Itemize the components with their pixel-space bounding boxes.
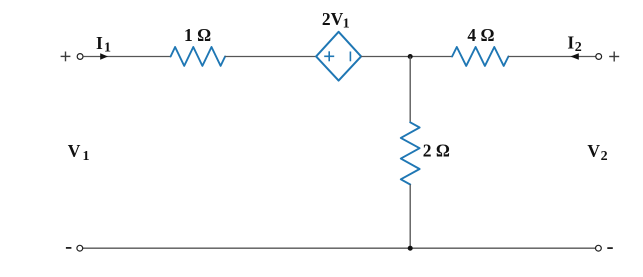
svg-text:2: 2	[601, 149, 608, 164]
current arrow I2	[570, 53, 578, 59]
resistor R3 2 ohm (vertical)	[401, 122, 420, 184]
svg-text:2V: 2V	[322, 9, 344, 29]
terminal + label (port 2 top)	[609, 52, 619, 62]
label 1 ohm	[184, 25, 211, 45]
svg-text:1 Ω: 1 Ω	[184, 25, 211, 45]
wire	[361, 56, 452, 58]
wire	[508, 56, 595, 58]
wire	[83, 56, 170, 58]
svg-text:2 Ω: 2 Ω	[423, 141, 450, 161]
terminal - label (port 1 bottom)	[66, 247, 72, 249]
wire	[409, 57, 411, 123]
label 2V1	[322, 9, 350, 31]
terminal port 2 bottom	[596, 245, 602, 251]
node B (bottom junction)	[408, 246, 413, 251]
label V2	[587, 141, 607, 164]
wire	[225, 56, 316, 58]
resistor R1 1 ohm	[171, 47, 226, 66]
dependent source U1 (2V1 diamond)	[316, 32, 361, 81]
label 2 ohm	[423, 141, 450, 161]
terminal port 1 top	[77, 54, 83, 60]
svg-text:V: V	[68, 141, 81, 161]
svg-text:1: 1	[343, 16, 350, 31]
label 4 ohm	[467, 25, 494, 45]
label V1	[68, 141, 90, 164]
terminal + label (port 1 top)	[61, 52, 71, 62]
terminal port 2 top	[596, 54, 602, 60]
label I2	[567, 33, 581, 55]
terminal - label (port 2 bottom)	[607, 247, 613, 249]
svg-text:1: 1	[104, 41, 111, 56]
svg-text:V: V	[587, 141, 600, 161]
svg-text:I: I	[567, 33, 574, 53]
current arrow I1	[100, 53, 108, 59]
wire	[409, 185, 411, 249]
terminal port 1 bottom	[77, 245, 83, 251]
svg-text:1: 1	[83, 149, 90, 164]
node A (top junction)	[408, 54, 413, 59]
resistor R2 4 ohm	[452, 47, 508, 66]
svg-text:I: I	[96, 33, 103, 53]
svg-text:2: 2	[575, 40, 582, 55]
svg-text:4 Ω: 4 Ω	[467, 25, 494, 45]
label I1	[96, 33, 111, 56]
wire (bottom rail)	[83, 247, 595, 249]
